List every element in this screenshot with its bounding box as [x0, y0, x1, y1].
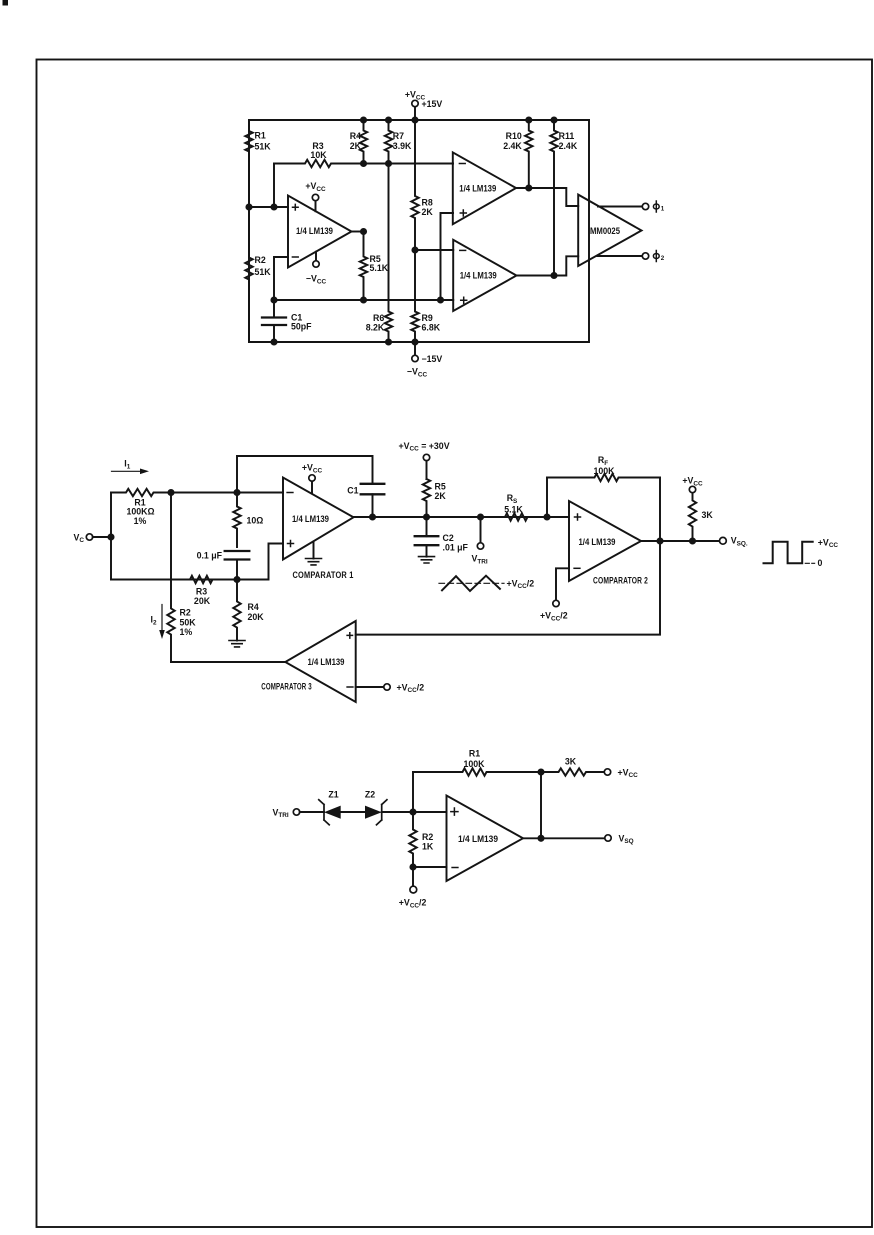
- comparator U2 1/4 LM139: [453, 152, 516, 224]
- wire: U2 output to driver input: [516, 188, 578, 206]
- svg-text:1%: 1%: [180, 627, 193, 637]
- current arrow I2: [151, 605, 165, 640]
- junction: 3K/output: [689, 537, 696, 544]
- svg-text:10K: 10K: [310, 150, 327, 160]
- comparator U3 1/4 LM139: [453, 240, 516, 311]
- svg-text:2K: 2K: [435, 491, 447, 501]
- svg-text:1/4 LM139: 1/4 LM139: [308, 657, 345, 667]
- resistor R1 100K-ohm 1%: [111, 489, 171, 526]
- power terminal -Vcc (U1): [306, 252, 327, 285]
- svg-text:R2: R2: [180, 608, 191, 618]
- svg-text:COMPARATOR 1: COMPARATOR 1: [293, 570, 354, 580]
- output terminal Vsq.: [720, 536, 748, 548]
- svg-text:3K: 3K: [565, 757, 577, 767]
- wire: comparator output (circuit 3): [523, 837, 605, 839]
- input terminal Vc: [74, 532, 112, 544]
- ground (R4): [229, 641, 245, 647]
- power terminal +Vcc/2 (comparator 2 -): [540, 568, 569, 622]
- wire: feedback to comparator 3 + input: [356, 541, 660, 635]
- capacitor C1 (feedback): [237, 456, 384, 517]
- capacitor 0.1uF: [197, 551, 250, 580]
- svg-text:R1: R1: [469, 748, 480, 758]
- resistor R4 2K: [350, 120, 367, 164]
- resistor 10-ohm: [233, 493, 263, 548]
- svg-text:3K: 3K: [702, 510, 714, 520]
- svg-text:0.1 μF: 0.1 μF: [197, 551, 223, 561]
- op-amp U1 1/4 LM139: [288, 196, 352, 268]
- junction: U2 out / R10: [525, 184, 532, 191]
- junction: - leg / divider wire: [270, 296, 277, 303]
- resistor R6 8.2K: [366, 164, 392, 343]
- junction: rail/R6: [385, 338, 392, 345]
- svg-text:2.4K: 2.4K: [559, 141, 578, 151]
- wire: U2 + input leg: [441, 213, 454, 300]
- svg-text:8.2K: 8.2K: [366, 323, 385, 333]
- junction: output/3K: [537, 835, 544, 842]
- resistor R5 2K: [423, 479, 447, 517]
- resistor Rs 5.1K: [490, 493, 547, 521]
- resistor R9 6.8K: [411, 250, 440, 342]
- junction: Vtri tap: [477, 513, 484, 520]
- svg-text:−15V: −15V: [422, 354, 443, 364]
- wire: 3K node to output: [540, 772, 542, 838]
- svg-text:R4: R4: [248, 602, 259, 612]
- resistor R3 10K: [274, 141, 453, 167]
- wire: divider to U3 - input: [415, 249, 453, 251]
- comparator COMPARATOR 3 (1/4 LM139): [261, 621, 355, 702]
- svg-text:R3: R3: [196, 586, 207, 596]
- comparator 1/4 LM139 (circuit 3): [447, 796, 524, 882]
- svg-text:20K: 20K: [194, 596, 211, 606]
- svg-text:COMPARATOR 3: COMPARATOR 3: [261, 682, 312, 692]
- svg-text:51K: 51K: [255, 267, 272, 277]
- svg-text:5.1K: 5.1K: [370, 263, 389, 273]
- svg-text:R10: R10: [506, 131, 522, 141]
- zener diode Z1: [319, 789, 365, 825]
- capacitor C1 50pF: [262, 313, 312, 342]
- comparator COMPARATOR 1 (1/4 LM139): [283, 478, 354, 580]
- junction: R1/3K node: [537, 768, 544, 775]
- ground (comparator 1): [306, 542, 322, 565]
- wire: R3 row to comparator + input: [111, 544, 283, 580]
- svg-text:20K: 20K: [248, 612, 265, 622]
- junction: U3 out / R11: [550, 272, 557, 279]
- current arrow I1: [112, 459, 150, 475]
- wire: comparator 3 output row: [171, 661, 285, 663]
- svg-text:1/4 LM139: 1/4 LM139: [296, 226, 333, 236]
- junction: R8/R9 node: [411, 246, 418, 253]
- resistor Rf 100K (feedback): [547, 455, 660, 541]
- svg-text:2K: 2K: [350, 141, 362, 151]
- resistor R2 50K 1%: [167, 493, 196, 663]
- svg-text:1: 1: [661, 206, 665, 213]
- svg-text:6.8K: 6.8K: [422, 323, 441, 333]
- wire: +Vcc top supply rail: [249, 119, 589, 121]
- power terminal -Vcc -15V: [407, 342, 443, 378]
- annotation: triangle waveform +Vcc/2: [439, 576, 534, 591]
- junction: Rs/Rf node: [543, 513, 550, 520]
- resistor R3 20K: [180, 576, 230, 606]
- power terminal +Vcc (circuit 3): [604, 767, 638, 779]
- zener diode Z2: [365, 789, 447, 825]
- svg-text:51K: 51K: [255, 142, 272, 152]
- clock driver MM0025: [578, 195, 641, 266]
- resistor R4 20K: [233, 580, 264, 641]
- annotation: square waveform +Vcc / 0: [764, 537, 839, 568]
- resistor 3K (circuit 3): [541, 757, 604, 776]
- svg-text:10Ω: 10Ω: [247, 515, 264, 525]
- junction: rail/R7: [385, 116, 392, 123]
- svg-text:R2: R2: [255, 255, 266, 265]
- wire: R3 left leg: [273, 164, 275, 208]
- resistor 3K pull-up: [682, 476, 713, 541]
- resistor R10 2.4K: [503, 120, 532, 188]
- svg-text:100K: 100K: [593, 466, 615, 476]
- svg-text:R4: R4: [350, 131, 361, 141]
- svg-text:Z1: Z1: [328, 789, 338, 799]
- svg-text:5.1K: 5.1K: [504, 505, 523, 515]
- input terminal Vtri (circuit 3): [273, 807, 320, 819]
- svg-text:R9: R9: [422, 313, 433, 323]
- junction: R2/+Vcc/2 node: [409, 863, 416, 870]
- resistor R11 2.4K: [550, 120, 578, 276]
- svg-text:1/4 LM139: 1/4 LM139: [579, 537, 616, 547]
- junction: R5/C2 node: [423, 513, 430, 520]
- svg-text:1/4 LM139: 1/4 LM139: [459, 183, 496, 193]
- junction: C1/output: [369, 513, 376, 520]
- svg-text:C2: C2: [443, 533, 454, 543]
- svg-text:50K: 50K: [180, 617, 197, 627]
- junction: zener/R1/R2 node: [409, 808, 416, 815]
- junction: R3/R4/cap node: [233, 576, 240, 583]
- junction: C1 bottom on rail: [270, 338, 277, 345]
- junction: rail/R4: [360, 116, 367, 123]
- junction: comp U2 + leg: [437, 296, 444, 303]
- junction: rail/+15V: [411, 116, 418, 123]
- wire: lower divider rail: [274, 299, 453, 301]
- power terminal +Vcc (comparator 1): [302, 463, 323, 493]
- power terminal +Vcc/2 (circuit 3): [399, 867, 427, 909]
- svg-text:3.9K: 3.9K: [393, 141, 412, 151]
- wire: comparator 1 output row: [354, 516, 570, 518]
- comparator COMPARATOR 2 (1/4 LM139): [569, 501, 648, 585]
- svg-text:R2: R2: [422, 832, 433, 842]
- svg-text:R6: R6: [373, 313, 384, 323]
- junction: rail/R10: [525, 116, 532, 123]
- svg-text:2.4K: 2.4K: [503, 141, 522, 151]
- svg-text:R5: R5: [435, 481, 446, 491]
- wire: U1 output: [352, 231, 364, 233]
- power terminal +Vcc/2 (comparator 3 -): [356, 682, 424, 694]
- resistor R2 51K: [245, 207, 271, 342]
- svg-text:100K: 100K: [463, 759, 485, 769]
- wire: comparator 2 output: [641, 540, 719, 542]
- resistor R5 5.1K: [360, 232, 389, 301]
- svg-text:MM0025: MM0025: [590, 226, 620, 236]
- junction: 10-ohm tap: [233, 489, 240, 496]
- svg-text:Z2: Z2: [365, 789, 375, 799]
- svg-text:+15V: +15V: [422, 99, 443, 109]
- capacitor C2 .01uF: [415, 517, 469, 563]
- wire: bottom -Vcc rail: [249, 120, 589, 342]
- resistor R1 51K: [245, 120, 271, 207]
- resistor R8 2K: [411, 120, 433, 250]
- wire: input left vertical: [110, 493, 112, 580]
- resistor R7 3.9K: [385, 120, 412, 164]
- svg-text:R8: R8: [422, 197, 433, 207]
- junction: R3/R4 node: [360, 160, 367, 167]
- svg-text:R11: R11: [559, 131, 575, 141]
- svg-text:1/4 LM139: 1/4 LM139: [458, 834, 498, 844]
- svg-text:0: 0: [818, 558, 823, 568]
- junction: Rf/output: [656, 537, 663, 544]
- junction: U1 output node: [360, 228, 367, 235]
- junction: R2 50K tap: [167, 489, 174, 496]
- junction: R5 bottom: [360, 296, 367, 303]
- junction: rail/R11: [550, 116, 557, 123]
- svg-text:.01 μF: .01 μF: [443, 542, 469, 552]
- junction: R3 leg on + input wire: [270, 203, 277, 210]
- svg-text:R7: R7: [393, 131, 404, 141]
- output terminal phi2: [598, 251, 665, 263]
- svg-text:2: 2: [661, 255, 665, 262]
- wire: summing node to C1 - input: [171, 492, 283, 494]
- wire: U1 - input leg: [274, 257, 288, 318]
- svg-text:2K: 2K: [422, 207, 434, 217]
- wire: U3 output to driver input: [517, 256, 579, 275]
- power terminal +Vcc (U1): [305, 181, 326, 211]
- svg-text:1K: 1K: [422, 842, 434, 852]
- resistor R2 1K: [409, 812, 434, 867]
- junction: R7/R6 node: [385, 160, 392, 167]
- svg-text:COMPARATOR 2: COMPARATOR 2: [593, 575, 648, 585]
- power terminal +Vcc +15V: [405, 90, 443, 121]
- resistor R1 100K (circuit 3): [413, 748, 541, 812]
- output terminal Vtri: [472, 517, 488, 565]
- svg-text:1/4 LM139: 1/4 LM139: [292, 514, 329, 524]
- svg-text:1%: 1%: [134, 516, 147, 526]
- svg-text:C1: C1: [347, 486, 358, 496]
- power terminal +Vcc = +30V: [399, 441, 450, 479]
- junction: Vc tap: [107, 533, 114, 540]
- wire: R1/R2 node to U1 + input: [249, 206, 288, 208]
- svg-text:1/4 LM139: 1/4 LM139: [460, 270, 497, 280]
- wire: to - input (circuit 3): [413, 866, 447, 868]
- svg-text:50pF: 50pF: [291, 322, 312, 332]
- junction: rail/-15V: [411, 338, 418, 345]
- output terminal Vsq (circuit 3): [605, 833, 634, 845]
- output terminal phi1: [598, 201, 665, 213]
- svg-text:R1: R1: [255, 131, 266, 141]
- junction: node A (U1 + input): [245, 203, 252, 210]
